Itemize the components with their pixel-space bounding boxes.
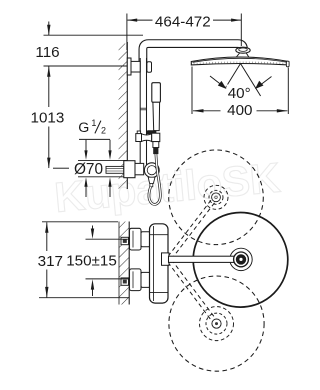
svg-text:Ø70: Ø70: [74, 161, 103, 178]
svg-text:464-472: 464-472: [155, 13, 211, 30]
svg-text:G: G: [78, 120, 89, 136]
svg-text:1013: 1013: [31, 109, 65, 126]
svg-text:1: 1: [91, 118, 96, 128]
svg-text:150±15: 150±15: [66, 252, 117, 269]
svg-text:317: 317: [38, 253, 63, 270]
svg-text:400: 400: [227, 102, 252, 119]
svg-text:40°: 40°: [228, 85, 251, 102]
svg-text:2: 2: [101, 125, 106, 135]
svg-text:116: 116: [35, 44, 59, 61]
